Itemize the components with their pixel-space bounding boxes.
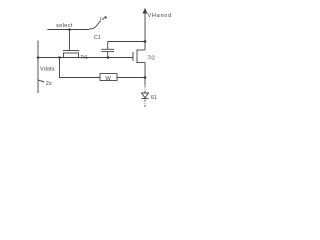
transistor Tr2 drain lead bbox=[137, 49, 145, 51]
wire W box to node B bbox=[117, 77, 145, 79]
dashed lead below EL diode bbox=[144, 100, 146, 108]
transistor Tr1 gate bar bbox=[63, 50, 79, 52]
lead line squiggle to reference 1a bbox=[90, 21, 102, 29]
svg-text:C1: C1 bbox=[94, 35, 101, 41]
node junction bus to W branch bbox=[58, 56, 61, 59]
capacitor C1 top lead bbox=[107, 42, 109, 50]
svg-text:W: W bbox=[105, 76, 111, 82]
node junction data line to bus bbox=[37, 56, 40, 59]
lead line squiggle to reference 2s bbox=[39, 80, 45, 82]
wire node B down to EL element bbox=[144, 78, 146, 86]
svg-text:select: select bbox=[56, 23, 73, 29]
capacitor C1 bottom plate bbox=[102, 51, 115, 53]
wire select line bbox=[48, 29, 90, 31]
transistor Tr1 channel bar bbox=[63, 52, 79, 54]
wire C1 to supply line bbox=[108, 41, 145, 43]
wire data line vertical 2s bbox=[37, 41, 39, 94]
svg-text:Vdata: Vdata bbox=[40, 67, 56, 73]
wire Tr2 source down to node B bbox=[144, 63, 146, 78]
diode EL element cathode bar bbox=[142, 98, 149, 100]
resistor W box bbox=[100, 74, 117, 81]
transistor Tr2 gate bar bbox=[132, 52, 134, 61]
node junction supply to C1 bbox=[144, 40, 147, 43]
dashed lead above EL diode bbox=[144, 86, 146, 93]
transistor Tr2 source lead bbox=[137, 62, 145, 64]
svg-text:Tr1: Tr1 bbox=[81, 55, 89, 61]
capacitor C1 top plate bbox=[102, 48, 115, 50]
transistor Tr2 channel bar bbox=[136, 50, 138, 64]
wire gate lead of Tr1 bbox=[69, 30, 71, 51]
svg-text:2s: 2s bbox=[46, 81, 52, 87]
node junction bus to C1 bbox=[107, 56, 110, 59]
wire branch down to W resistor bbox=[60, 58, 101, 78]
diode EL element 61 triangle bbox=[142, 93, 149, 98]
node junction B bbox=[144, 76, 147, 79]
wire bus node A horizontal bbox=[38, 57, 133, 59]
svg-text:Tr2: Tr2 bbox=[148, 56, 156, 62]
power supply arrow VHanod bbox=[144, 11, 146, 50]
capacitor C1 bottom lead bbox=[107, 52, 109, 58]
transistor Tr1 drain leg bbox=[78, 53, 80, 58]
node junction on select line bbox=[68, 28, 71, 31]
svg-text:61: 61 bbox=[151, 95, 157, 101]
transistor Tr1 source leg bbox=[63, 53, 65, 58]
node reference dot 1a bbox=[104, 16, 106, 18]
svg-text:1a: 1a bbox=[100, 16, 105, 21]
svg-text:VHanod: VHanod bbox=[148, 13, 172, 19]
